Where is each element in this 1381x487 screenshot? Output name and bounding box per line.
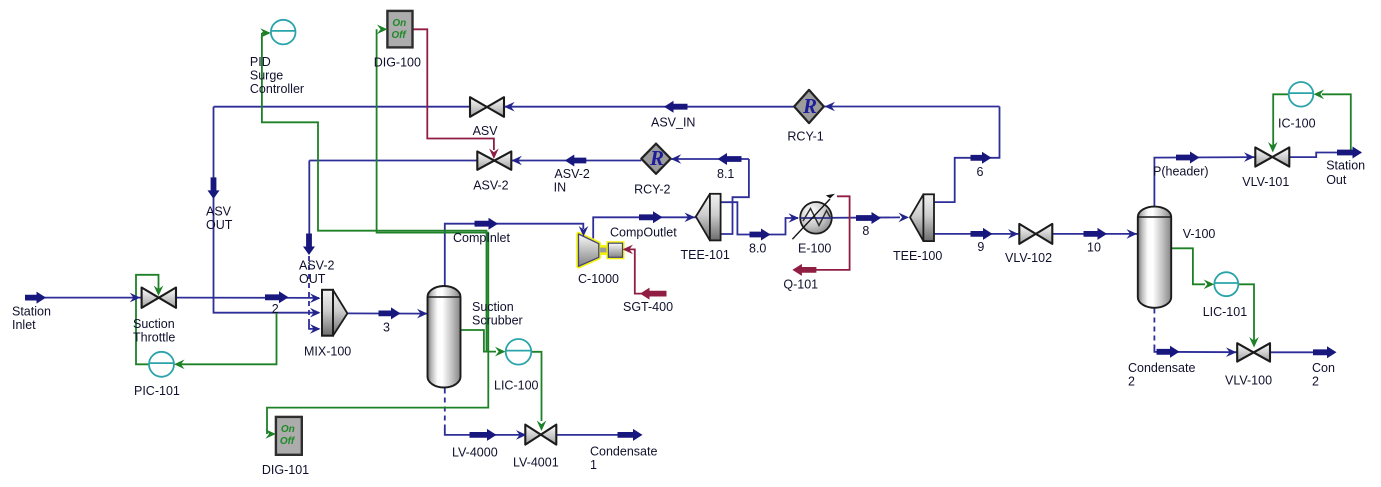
svg-text:Station: Station — [1326, 159, 1365, 173]
wire stream Station Inlet to Suction Throttle — [26, 297, 142, 299]
controller PIC-101 — [149, 352, 174, 377]
wire stream LV-4000 dashed drop from Suction Scrubber bottom — [444, 389, 446, 431]
arrowhead green into DIG-101 — [265, 429, 276, 439]
stream arrow 3 — [379, 307, 401, 319]
arrowhead maroon down into ASV-2 — [489, 149, 499, 160]
svg-text:Suction: Suction — [472, 300, 514, 314]
arrowhead ASV-2 OUT into MIX-100 — [310, 324, 321, 334]
svg-text:RCY-2: RCY-2 — [634, 183, 670, 197]
svg-text:Suction: Suction — [133, 317, 175, 331]
svg-text:PIC-101: PIC-101 — [134, 384, 180, 398]
svg-text:2: 2 — [1312, 375, 1319, 389]
energy arrow SGT-400 (maroon) — [640, 288, 667, 300]
energy arrow Q-101 (maroon) — [792, 264, 816, 276]
heater E-100 — [800, 202, 832, 234]
controller PID Surge Controller — [271, 20, 296, 45]
arrowhead green into LIC-101 — [1204, 280, 1215, 290]
stream arrow ASV-2 OUT (downward) — [303, 234, 315, 256]
stream arrow Condensate 1 — [618, 429, 643, 441]
wire stream ASV-2 OUT vertical to MIX-100 bottom inlet (solid part) — [308, 161, 310, 235]
digital point DIG-101 — [276, 417, 302, 455]
arrowhead LV-4000 into LV-4001 — [516, 430, 527, 440]
svg-text:RCY-1: RCY-1 — [787, 130, 823, 144]
wire stream CompInlet from Suction Scrubber top to C-1000 — [445, 224, 584, 287]
wire RCY-1 inlet line from stream 6 riser — [825, 106, 1000, 108]
wire stream 8.0 from TEE-101 to E-100 — [721, 202, 798, 234]
svg-text:R: R — [649, 146, 664, 170]
svg-text:Throttle: Throttle — [133, 331, 175, 345]
svg-text:6: 6 — [977, 165, 984, 179]
svg-text:Inlet: Inlet — [12, 318, 36, 332]
svg-text:9: 9 — [977, 240, 984, 254]
wire stream ASV-2 line from valve to down-leg corner — [309, 160, 477, 162]
arrowhead green down into LV-4001 — [537, 421, 547, 432]
svg-text:On: On — [392, 18, 406, 29]
valve ASV-2 — [477, 151, 494, 169]
arrowhead green down into VLV-100 — [1249, 337, 1259, 348]
digital point DIG-100 — [387, 11, 412, 48]
stream arrow P(header) — [1176, 152, 1200, 164]
arrowhead CompOutlet into TEE-101 — [685, 213, 696, 223]
wire stream P(header) V-100 top to VLV-101 — [1154, 157, 1255, 206]
wire stream Condensate 2 elbow to VLV-100 — [1154, 346, 1237, 352]
valve LV-4001 — [525, 425, 541, 445]
mixer MIX-100 — [333, 290, 347, 336]
signal wire Suction Scrubber level tap to LIC-100 — [461, 330, 497, 352]
energy stream SGT-400 wire from C-1000 coupling — [623, 249, 665, 293]
signal wire into PID Surge Controller — [262, 32, 266, 34]
arrowhead into ASV right side — [504, 102, 514, 112]
recycle RCY-1 — [794, 90, 824, 123]
valve VLV-101 — [1255, 147, 1272, 166]
valve ASV — [470, 97, 487, 117]
stream arrow ASV OUT (downward) — [208, 177, 220, 199]
wire stream ASV-2 IN from RCY-2 to valve ASV-2 — [511, 160, 641, 162]
svg-text:VLV-102: VLV-102 — [1005, 251, 1052, 265]
wire stream 3 MIX-100 to Suction Scrubber — [347, 312, 427, 314]
svg-text:SGT-400: SGT-400 — [623, 300, 673, 314]
svg-text:VLV-101: VLV-101 — [1242, 175, 1289, 189]
svg-text:Controller: Controller — [250, 82, 304, 96]
arrowhead stream 10 into V-100 — [1127, 229, 1138, 239]
arrowhead stream 8 into TEE-100 — [899, 213, 910, 223]
svg-text:2: 2 — [272, 302, 279, 316]
svg-text:LIC-100: LIC-100 — [494, 379, 539, 393]
valve VLV-100 — [1237, 343, 1253, 361]
arrowhead green down into Suction Throttle — [154, 286, 164, 297]
arrowhead CompInlet down into C-1000 — [579, 226, 589, 237]
arrowhead stream 9 into VLV-102 — [1008, 229, 1019, 239]
svg-text:Con: Con — [1312, 361, 1335, 375]
svg-text:8: 8 — [862, 224, 869, 238]
arrowhead ASV OUT into MIX-100 — [310, 308, 321, 318]
stream arrow 10 — [1084, 228, 1108, 240]
svg-text:Off: Off — [391, 30, 407, 41]
stream arrow 8 — [856, 212, 881, 224]
stream arrow Station Inlet — [25, 292, 46, 304]
svg-text:MIX-100: MIX-100 — [304, 345, 351, 359]
signal wire DIG-100 drop and run to DIG-101 line — [267, 29, 488, 434]
stream arrow LV-4000 — [470, 429, 497, 441]
svg-text:TEE-101: TEE-101 — [681, 248, 730, 262]
stream arrow 9 — [971, 228, 993, 240]
arrowhead green into LIC-100 — [495, 347, 506, 357]
arrowhead green into PID Surge Controller — [260, 28, 271, 38]
wire stream LV-4000 elbow to LV-4001 — [445, 429, 526, 435]
stream arrow 8.0 — [750, 229, 771, 241]
wire main ASV recycle line (ASV_IN) from RCY-1 to valve ASV and down-leg corner — [214, 106, 471, 108]
signal wire LIC-101 output to VLV-100 — [1238, 284, 1254, 342]
stream arrow ASV-2 IN — [565, 155, 587, 167]
arrowhead green down into VLV-101 — [1268, 142, 1278, 153]
signal wire IC-100 output to VLV-101 — [1273, 94, 1289, 147]
svg-text:CompInlet: CompInlet — [453, 231, 510, 245]
wire stream 9 TEE-100 to VLV-102 — [934, 233, 1019, 235]
arrowhead P(header) into VLV-101 — [1244, 152, 1255, 162]
arrowhead into ASV-2 right side — [511, 156, 522, 166]
stream arrow CompOutlet — [639, 211, 663, 223]
controller LIC-100 — [506, 339, 532, 365]
svg-text:ASV-2: ASV-2 — [473, 179, 508, 193]
svg-text:ASV-2: ASV-2 — [299, 259, 334, 273]
vessel V-100 — [1138, 207, 1171, 308]
svg-text:P(header): P(header) — [1153, 165, 1209, 179]
svg-text:LV-4001: LV-4001 — [513, 456, 559, 470]
vessel Suction Scrubber — [428, 286, 461, 388]
wire stream Condensate 1 after LV-4001 — [556, 434, 641, 436]
svg-text:On: On — [281, 424, 295, 435]
controller LIC-101 — [1214, 272, 1238, 296]
stream arrow Con 2 — [1313, 346, 1337, 358]
signal wire DIG-100 to valve ASV-2 (maroon) — [413, 29, 494, 150]
signal wire V-100 level tap to LIC-101 — [1171, 248, 1205, 284]
svg-text:1: 1 — [590, 458, 597, 472]
stream arrow ASV_IN — [664, 101, 688, 113]
stream arrow Condensate 2 — [1157, 346, 1180, 358]
svg-text:10: 10 — [1087, 241, 1101, 255]
svg-text:Condensate: Condensate — [1128, 361, 1195, 375]
svg-text:ASV_IN: ASV_IN — [651, 116, 695, 130]
arrowhead Condensate 2 into VLV-100 — [1226, 347, 1237, 357]
arrowhead into RCY-2 right side — [671, 154, 682, 164]
signal wire PID Surge Controller loop (from controller down and over to LIC riser) — [262, 33, 487, 352]
arrowhead into RCY-1 right side — [825, 102, 836, 112]
arrowhead green into PIC-101 — [174, 360, 185, 370]
svg-text:DIG-100: DIG-100 — [374, 56, 421, 70]
arrowhead 8.0 into E-100 — [789, 213, 800, 223]
arrowhead green into IC-100 — [1314, 90, 1325, 100]
wire stream 6 riser and horizontal from TEE-100 — [934, 107, 1000, 203]
arrowhead stream 3 into Suction Scrubber — [417, 309, 428, 319]
recycle RCY-2 — [641, 144, 670, 174]
svg-text:Q-101: Q-101 — [783, 278, 818, 292]
arrowhead into Suction Throttle — [130, 293, 141, 303]
wire stream ASV-2 OUT dashed segment — [308, 256, 310, 324]
stream arrow Station Out — [1337, 147, 1362, 159]
svg-text:ASV-2: ASV-2 — [554, 167, 589, 181]
svg-text:Scrubber: Scrubber — [472, 314, 523, 328]
svg-text:LIC-101: LIC-101 — [1203, 305, 1248, 319]
tee TEE-101 — [696, 194, 710, 241]
wire stream 10 VLV-102 to V-100 — [1052, 233, 1137, 235]
svg-text:R: R — [802, 94, 817, 118]
svg-text:8.1: 8.1 — [717, 167, 734, 181]
stream arrow CompInlet — [475, 218, 499, 230]
arrowhead maroon into C-1000 coupling — [623, 245, 634, 255]
svg-text:VLV-100: VLV-100 — [1225, 374, 1272, 388]
wire stream 8.1 from TEE-101 to RCY-2 — [671, 158, 749, 160]
svg-text:Off: Off — [280, 436, 296, 447]
wire ASV line right portion valve ASV to RCY-1 — [504, 106, 794, 108]
svg-text:OUT: OUT — [299, 272, 326, 286]
signal wire PIC-101 output to Suction Throttle — [136, 275, 159, 365]
signal wire stream-2 tap to PIC-101 — [177, 313, 277, 364]
stream arrow 8.1 — [718, 153, 742, 165]
svg-text:Station: Station — [12, 305, 51, 319]
arrowhead stream 2 into MIX-100 — [310, 293, 321, 303]
wire stream ASV-2 OUT elbow into MIX-100 — [309, 324, 319, 329]
svg-text:V-100: V-100 — [1183, 227, 1216, 241]
stream arrow 6 — [971, 152, 992, 164]
compressor C-1000 — [579, 234, 599, 266]
tee TEE-100 — [910, 194, 923, 241]
valve Suction Throttle — [142, 288, 159, 308]
svg-text:8.0: 8.0 — [749, 242, 766, 256]
signal wire Station Out tap up to IC-100 — [1322, 94, 1351, 152]
svg-text:LV-4000: LV-4000 — [452, 446, 498, 460]
controller IC-100 — [1289, 82, 1314, 107]
arrowhead green into DIG-100 — [377, 25, 388, 35]
wire stream 2 Suction Throttle to MIX-100 — [176, 297, 319, 299]
svg-text:OUT: OUT — [206, 218, 233, 232]
svg-text:2: 2 — [1128, 375, 1135, 389]
stream arrow 2 — [265, 291, 289, 303]
svg-text:IN: IN — [554, 181, 567, 195]
svg-text:ASV: ASV — [473, 124, 499, 138]
signal wire LIC-100 output to LV-4001 — [532, 352, 542, 421]
energy stream Q-101 wire from E-100 — [814, 196, 850, 270]
wire stream Condensate 2 dashed drop from V-100 bottom — [1153, 309, 1155, 348]
wire stream ASV OUT vertical from main ASV line to MIX-100 middle inlet — [214, 107, 320, 313]
wire stream 8 through E-100 to TEE-100 — [800, 216, 900, 219]
svg-text:IC-100: IC-100 — [1278, 117, 1316, 131]
wire stream Station Out after VLV-101 — [1289, 153, 1361, 158]
svg-text:Out: Out — [1326, 173, 1347, 187]
svg-text:Surge: Surge — [250, 69, 283, 83]
svg-text:DIG-101: DIG-101 — [262, 463, 309, 477]
wire stream CompOutlet from C-1000 to TEE-101 — [593, 217, 696, 238]
svg-text:PID: PID — [250, 55, 271, 69]
svg-text:3: 3 — [383, 321, 390, 335]
svg-text:C-1000: C-1000 — [578, 272, 619, 286]
svg-text:CompOutlet: CompOutlet — [610, 226, 677, 240]
svg-text:ASV: ASV — [206, 205, 232, 219]
valve VLV-102 — [1019, 224, 1036, 244]
wire stream Con 2 after VLV-100 — [1270, 351, 1335, 353]
svg-text:E-100: E-100 — [798, 242, 831, 256]
svg-text:Condensate: Condensate — [590, 445, 657, 459]
svg-text:TEE-100: TEE-100 — [893, 249, 942, 263]
